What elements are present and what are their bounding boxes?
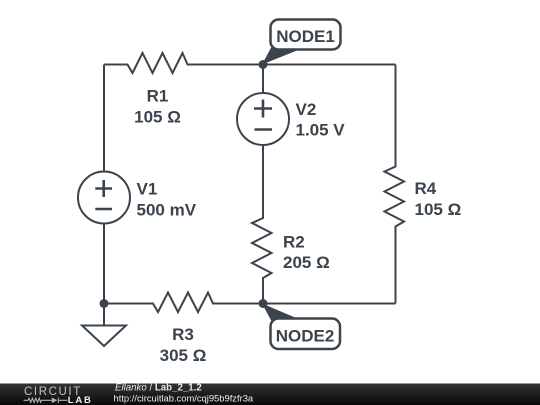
svg-text:NODE2: NODE2 — [276, 327, 335, 346]
svg-text:205 Ω: 205 Ω — [283, 253, 330, 272]
svg-text:305 Ω: 305 Ω — [160, 346, 207, 365]
svg-text:R3: R3 — [172, 325, 194, 344]
svg-text:V1: V1 — [137, 180, 158, 199]
svg-text:105 Ω: 105 Ω — [134, 108, 181, 127]
svg-text:105 Ω: 105 Ω — [415, 200, 462, 219]
svg-text:NODE1: NODE1 — [276, 27, 335, 46]
svg-text:V2: V2 — [296, 100, 317, 119]
svg-text:R4: R4 — [415, 179, 437, 198]
svg-text:R2: R2 — [283, 233, 305, 252]
svg-text:http://circuitlab.com/cqj95b9f: http://circuitlab.com/cqj95b9fzfr3a — [114, 393, 254, 404]
svg-text:500 mV: 500 mV — [137, 201, 197, 220]
svg-text:1.05 V: 1.05 V — [296, 121, 346, 140]
svg-text:R1: R1 — [147, 87, 169, 106]
svg-text:LAB: LAB — [68, 395, 93, 405]
